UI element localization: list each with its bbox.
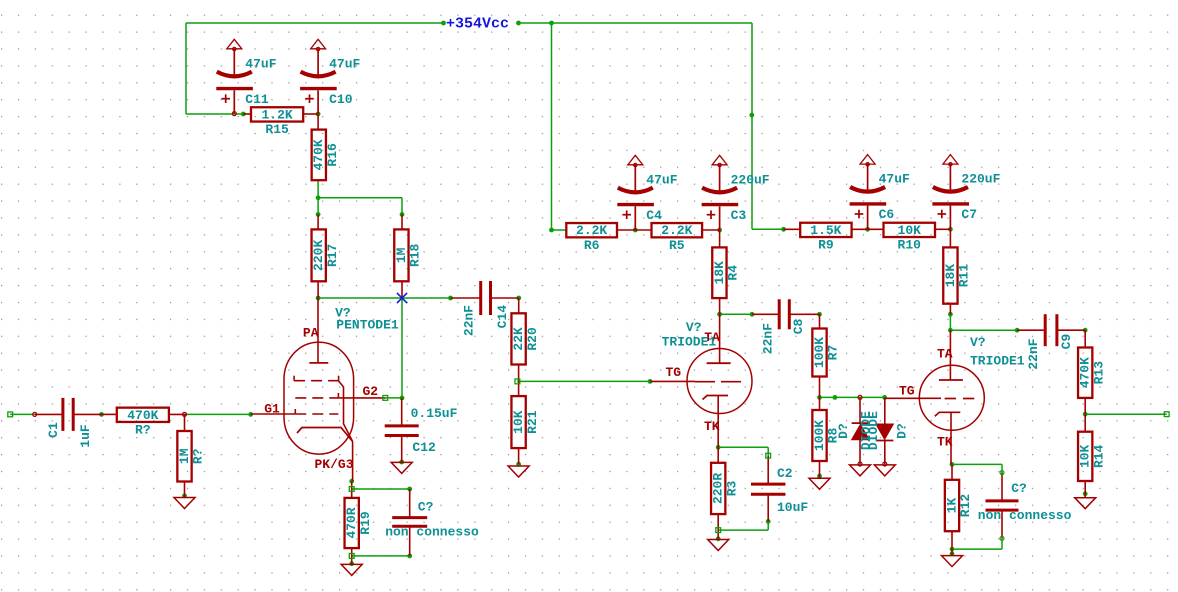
svg-text:18K: 18K (712, 261, 727, 285)
svg-text:D?: D? (894, 423, 909, 439)
svg-text:non connesso: non connesso (385, 525, 479, 540)
svg-text:470K: 470K (311, 139, 326, 170)
svg-text:22nF: 22nF (1026, 338, 1041, 369)
svg-text:220uF: 220uF (731, 172, 770, 187)
svg-text:1K: 1K (944, 498, 959, 514)
svg-text:TA: TA (937, 346, 953, 361)
svg-text:TRIODE1: TRIODE1 (970, 354, 1025, 369)
svg-text:R?: R? (191, 448, 206, 464)
svg-text:2.2K: 2.2K (576, 223, 607, 238)
svg-text:R12: R12 (958, 494, 973, 518)
svg-text:18K: 18K (943, 264, 958, 288)
svg-text:C?: C? (418, 499, 434, 514)
svg-text:2.2K: 2.2K (661, 223, 692, 238)
svg-text:C12: C12 (412, 440, 436, 455)
svg-text:1M: 1M (394, 247, 409, 263)
svg-text:100K: 100K (812, 337, 827, 368)
svg-text:PK/G3: PK/G3 (315, 457, 354, 472)
svg-text:C6: C6 (879, 207, 895, 222)
svg-text:22nF: 22nF (761, 323, 776, 354)
svg-text:22nF: 22nF (462, 305, 477, 336)
svg-text:100K: 100K (812, 420, 827, 451)
svg-text:1uF: 1uF (78, 424, 93, 448)
svg-text:220R: 220R (711, 473, 726, 504)
svg-text:R15: R15 (265, 122, 289, 137)
svg-text:470K: 470K (1078, 357, 1093, 388)
svg-text:V?: V? (686, 320, 702, 335)
svg-text:R19: R19 (358, 511, 373, 535)
svg-text:470K: 470K (127, 408, 158, 423)
svg-text:C14: C14 (495, 305, 510, 329)
svg-text:R7: R7 (826, 345, 841, 361)
svg-text:R17: R17 (325, 244, 340, 267)
svg-text:+354Vcc: +354Vcc (446, 16, 509, 33)
svg-text:C2: C2 (777, 466, 793, 481)
svg-text:R18: R18 (408, 243, 423, 267)
svg-text:10K: 10K (1078, 444, 1093, 468)
svg-text:R16: R16 (325, 143, 340, 167)
svg-text:R11: R11 (957, 264, 972, 288)
svg-text:C9: C9 (1059, 334, 1074, 350)
svg-text:10K: 10K (511, 410, 526, 434)
svg-text:V?: V? (970, 335, 986, 350)
svg-text:DIODE: DIODE (866, 411, 881, 450)
svg-text:G2: G2 (363, 384, 379, 399)
svg-text:R5: R5 (669, 238, 685, 253)
svg-text:0.15uF: 0.15uF (411, 406, 458, 421)
svg-text:R4: R4 (726, 265, 741, 281)
svg-text:C7: C7 (961, 207, 977, 222)
svg-text:47uF: 47uF (245, 56, 276, 71)
svg-text:C4: C4 (646, 208, 662, 223)
svg-text:R6: R6 (584, 238, 600, 253)
svg-text:220uF: 220uF (961, 172, 1000, 187)
svg-text:C10: C10 (329, 92, 353, 107)
svg-text:R21: R21 (525, 410, 540, 434)
svg-text:R14: R14 (1091, 444, 1106, 468)
svg-text:TK: TK (937, 434, 953, 449)
svg-text:TG: TG (899, 384, 915, 399)
svg-text:R20: R20 (525, 327, 540, 351)
svg-text:G1: G1 (264, 402, 280, 417)
svg-text:47uF: 47uF (879, 172, 910, 187)
svg-text:470R: 470R (344, 507, 359, 538)
svg-text:220K: 220K (311, 240, 326, 271)
svg-text:47uF: 47uF (329, 56, 360, 71)
svg-text:47uF: 47uF (646, 172, 677, 187)
svg-text:R?: R? (135, 422, 151, 437)
svg-text:1.5K: 1.5K (810, 223, 841, 238)
svg-text:1.2K: 1.2K (261, 107, 292, 122)
svg-text:C3: C3 (731, 208, 747, 223)
svg-text:PA: PA (303, 326, 319, 341)
svg-text:1M: 1M (177, 448, 192, 464)
svg-text:R10: R10 (898, 238, 922, 253)
svg-text:R13: R13 (1091, 361, 1106, 385)
svg-text:10uF: 10uF (777, 500, 808, 515)
svg-text:non connesso: non connesso (978, 508, 1072, 523)
svg-text:TRIODE1: TRIODE1 (662, 334, 717, 349)
svg-text:22K: 22K (511, 327, 526, 351)
svg-text:TG: TG (666, 365, 682, 380)
svg-text:R3: R3 (724, 480, 739, 496)
svg-text:TK: TK (704, 419, 720, 434)
svg-text:10K: 10K (898, 223, 922, 238)
svg-text:C11: C11 (245, 92, 269, 107)
svg-text:C1: C1 (46, 422, 61, 438)
svg-text:PENTODE1: PENTODE1 (336, 318, 399, 333)
svg-text:R9: R9 (818, 238, 834, 253)
svg-text:D?: D? (836, 423, 851, 439)
svg-text:C?: C? (1011, 481, 1027, 496)
svg-text:C8: C8 (791, 319, 806, 335)
